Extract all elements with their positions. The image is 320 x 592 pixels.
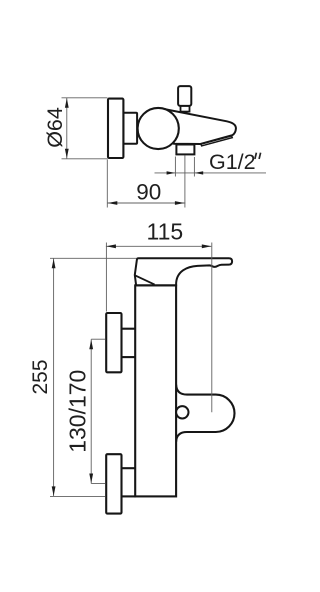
diverter knob bbox=[178, 86, 191, 112]
dimension G1/2: extension lines bbox=[155, 157, 267, 177]
handle lever (side view) bbox=[135, 258, 232, 285]
upper connector bbox=[122, 329, 137, 357]
svg-text:115: 115 bbox=[147, 218, 184, 244]
shower holder hole bbox=[176, 406, 188, 418]
dimension Ø64: extension lines bbox=[62, 98, 108, 159]
body (side view) bbox=[135, 285, 176, 496]
dimension Ø64 arrows bbox=[65, 98, 69, 158]
wall flange (side-on) bbox=[108, 99, 123, 158]
dimension 255 arrows bbox=[52, 259, 56, 496]
svg-text:130/170: 130/170 bbox=[65, 370, 91, 453]
svg-text:90: 90 bbox=[136, 179, 161, 204]
upper wall flange bbox=[106, 313, 121, 372]
svg-text:Ø64: Ø64 bbox=[43, 107, 67, 148]
dimension 115 arrows bbox=[106, 244, 211, 248]
spout (top view) bbox=[162, 109, 236, 144]
lower connector bbox=[122, 468, 137, 496]
shower bracket (spout, side view) bbox=[176, 385, 234, 442]
svg-text:G1/2: G1/2 bbox=[209, 150, 256, 174]
dimension 115: extension + line bbox=[106, 243, 212, 413]
svg-text:255: 255 bbox=[29, 359, 52, 394]
dimension 130/170 arrows bbox=[89, 340, 93, 484]
dimension 255: extension + line bbox=[50, 258, 137, 496]
dimension 130/170: extension + line bbox=[91, 339, 105, 483]
mixer body circle bbox=[138, 108, 179, 149]
aerator strip bbox=[201, 136, 232, 146]
cartridge slant line bbox=[135, 275, 155, 284]
dimension G1/2 arrows bbox=[167, 171, 204, 174]
G1/2 hose connector (below body) bbox=[176, 145, 194, 155]
dimension 90: extension lines bbox=[107, 156, 185, 208]
lower wall flange bbox=[106, 454, 121, 513]
dimension 90 arrows bbox=[108, 201, 185, 205]
inch double-prime ticks bbox=[255, 153, 261, 159]
connector between flange and body bbox=[123, 113, 137, 144]
